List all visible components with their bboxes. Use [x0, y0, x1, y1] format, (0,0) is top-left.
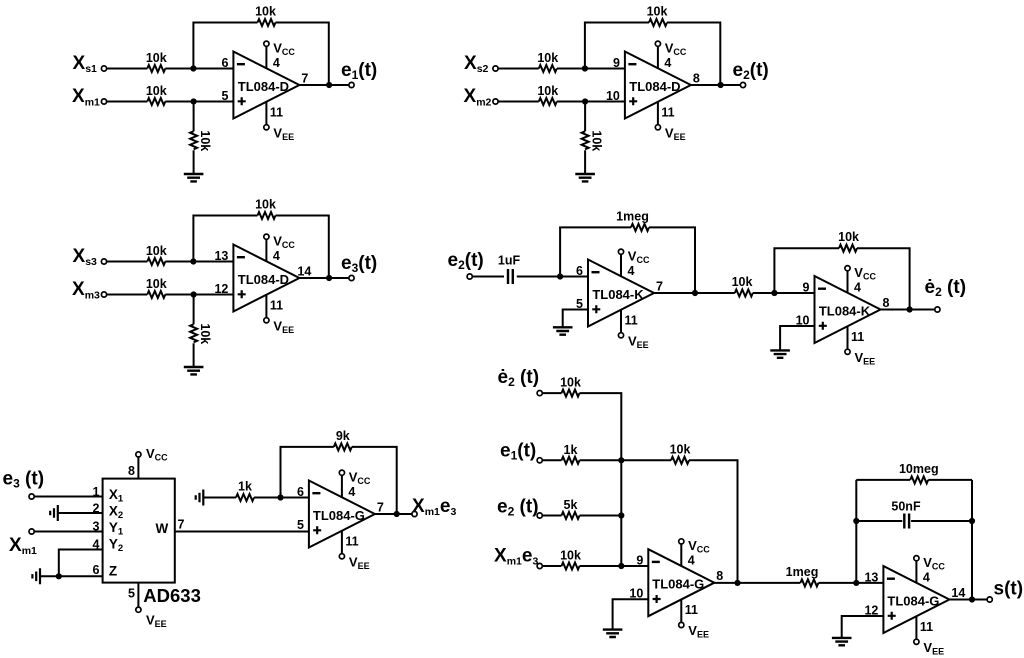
svg-text:11: 11 [685, 603, 698, 617]
svg-text:4: 4 [688, 554, 695, 568]
svg-text:4: 4 [854, 281, 861, 295]
svg-text:8: 8 [883, 296, 890, 310]
svg-text:6: 6 [221, 56, 228, 70]
svg-text:13: 13 [214, 249, 228, 263]
svg-text:TL084-G: TL084-G [313, 508, 365, 523]
svg-text:11: 11 [345, 535, 358, 549]
svg-text:e3​ (t): e3​ (t) [3, 469, 45, 491]
svg-text:1meg: 1meg [786, 565, 819, 579]
svg-text:10meg: 10meg [899, 462, 939, 476]
svg-text:e2​ (t): e2​ (t) [497, 497, 539, 519]
svg-text:8: 8 [693, 72, 700, 86]
svg-text:s(t): s(t) [994, 579, 1024, 600]
svg-text:11: 11 [270, 106, 283, 120]
svg-text:11: 11 [851, 330, 864, 344]
svg-text:10k: 10k [146, 84, 167, 98]
svg-text:10k: 10k [537, 84, 558, 98]
svg-text:10k: 10k [589, 130, 603, 151]
svg-text:e3​(t): e3​(t) [341, 253, 377, 275]
svg-text:10k: 10k [198, 130, 212, 151]
svg-text:10k: 10k [198, 323, 212, 344]
svg-text:ė2​ (t): ė2​ (t) [498, 367, 540, 389]
svg-text:2: 2 [93, 502, 100, 516]
svg-text:10k: 10k [537, 51, 558, 65]
svg-text:9: 9 [613, 56, 620, 70]
svg-text:W: W [156, 521, 169, 536]
svg-text:10k: 10k [146, 277, 167, 291]
svg-text:7: 7 [301, 72, 308, 86]
svg-text:14: 14 [951, 586, 965, 600]
svg-text:11: 11 [625, 314, 638, 328]
svg-text:1: 1 [93, 485, 100, 499]
svg-text:TL084-K: TL084-K [592, 287, 644, 302]
svg-text:5: 5 [221, 89, 228, 103]
svg-text:10: 10 [606, 89, 620, 103]
svg-text:4: 4 [664, 56, 671, 70]
svg-text:AD633: AD633 [143, 585, 201, 606]
svg-text:10k: 10k [146, 244, 167, 258]
svg-text:e2​(t): e2​(t) [448, 250, 484, 272]
svg-text:ė2​ (t): ė2​ (t) [925, 277, 967, 299]
svg-text:10k: 10k [255, 198, 276, 212]
svg-text:e2​(t): e2​(t) [733, 60, 769, 82]
svg-text:11: 11 [661, 106, 674, 120]
svg-text:9k: 9k [336, 429, 350, 443]
svg-text:14: 14 [297, 265, 311, 279]
svg-text:1uF: 1uF [498, 254, 521, 268]
svg-text:11: 11 [920, 620, 933, 634]
svg-text:5: 5 [297, 518, 304, 532]
svg-text:8: 8 [716, 569, 723, 583]
svg-text:10k: 10k [670, 442, 691, 456]
svg-text:TL084-K: TL084-K [819, 304, 871, 319]
svg-text:10k: 10k [255, 5, 276, 19]
svg-text:1meg: 1meg [616, 209, 649, 223]
svg-text:TL084-D: TL084-D [629, 79, 680, 94]
svg-text:10k: 10k [146, 51, 167, 65]
svg-text:10k: 10k [560, 549, 581, 563]
svg-text:13: 13 [864, 571, 878, 585]
svg-text:4: 4 [628, 264, 635, 278]
svg-text:TL084-D: TL084-D [238, 272, 289, 287]
svg-text:7: 7 [178, 518, 185, 532]
svg-text:6: 6 [93, 563, 100, 577]
svg-text:7: 7 [377, 501, 384, 515]
svg-text:3: 3 [93, 520, 100, 534]
svg-text:4: 4 [93, 538, 100, 552]
svg-text:TL084-G: TL084-G [652, 577, 704, 592]
svg-text:6: 6 [576, 264, 583, 278]
svg-text:12: 12 [214, 282, 228, 296]
svg-text:4: 4 [273, 56, 280, 70]
svg-text:10k: 10k [647, 5, 668, 19]
svg-text:7: 7 [656, 280, 663, 294]
svg-text:4: 4 [923, 571, 930, 585]
svg-text:TL084-D: TL084-D [238, 79, 289, 94]
svg-text:Z: Z [109, 563, 117, 578]
svg-text:10k: 10k [560, 376, 581, 390]
svg-text:5: 5 [128, 587, 135, 601]
svg-text:50nF: 50nF [891, 500, 921, 514]
svg-text:4: 4 [273, 249, 280, 263]
svg-text:10k: 10k [732, 275, 753, 289]
svg-text:e1​(t): e1​(t) [341, 60, 377, 82]
svg-text:10k: 10k [838, 230, 859, 244]
svg-text:9: 9 [636, 554, 643, 568]
svg-text:11: 11 [270, 299, 283, 313]
svg-text:TL084-G: TL084-G [887, 594, 939, 609]
svg-text:8: 8 [128, 464, 135, 478]
svg-text:4: 4 [348, 485, 355, 499]
svg-text:1k: 1k [238, 480, 252, 494]
svg-text:e1​(t): e1​(t) [500, 441, 536, 463]
svg-text:5k: 5k [564, 498, 578, 512]
svg-text:9: 9 [803, 281, 810, 295]
svg-text:6: 6 [297, 485, 304, 499]
svg-text:1k: 1k [564, 443, 578, 457]
